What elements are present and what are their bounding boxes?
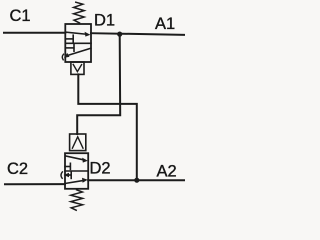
- pilot box D1: [71, 62, 84, 74]
- exhaust curve D2: [61, 172, 62, 178]
- wire A2: [88, 179, 184, 181]
- valve D1: [62, 2, 91, 74]
- svg-text:D1: D1: [94, 11, 115, 29]
- wire A1: [91, 33, 184, 35]
- blocked port bottom cell D2: [70, 172, 72, 179]
- node A1 junction: [117, 31, 122, 36]
- flow path bottom cell D2: [65, 180, 85, 183]
- flow path top cell D2: [66, 156, 85, 160]
- blocked port top cell D2: [65, 166, 70, 168]
- arrow top cell D1: [85, 32, 91, 37]
- exhaust path bottom cell D1: [68, 48, 91, 55]
- spring D2: [71, 190, 83, 210]
- svg-text:A1: A1: [155, 15, 175, 33]
- arrow exhaust D1: [64, 53, 70, 58]
- pilot box D2: [70, 134, 86, 151]
- svg-text:C2: C2: [7, 160, 28, 178]
- valve body D2: [65, 153, 88, 189]
- wire C1: [4, 32, 65, 34]
- node A2 junction: [134, 178, 139, 183]
- svg-text:A2: A2: [157, 163, 177, 181]
- exhaust curve D1: [62, 54, 63, 60]
- arrow exhaust D2: [64, 173, 69, 177]
- arrow top cell D2: [82, 158, 88, 163]
- blocked port bottom cell D1: [65, 47, 74, 49]
- wire D1 pilot to A2-junction: [78, 74, 137, 180]
- arrow bottom cell D2: [82, 178, 88, 183]
- wire C2: [5, 183, 65, 185]
- svg-text:C1: C1: [10, 7, 31, 25]
- svg-text:D2: D2: [90, 159, 111, 177]
- valve body D1: [65, 24, 91, 62]
- flow path top cell D1: [66, 32, 87, 34]
- wire A1-junction to D2 pilot: [77, 34, 120, 134]
- blocked port top cell D1: [65, 38, 73, 40]
- spring D1: [74, 2, 85, 23]
- valve D2: [61, 134, 88, 210]
